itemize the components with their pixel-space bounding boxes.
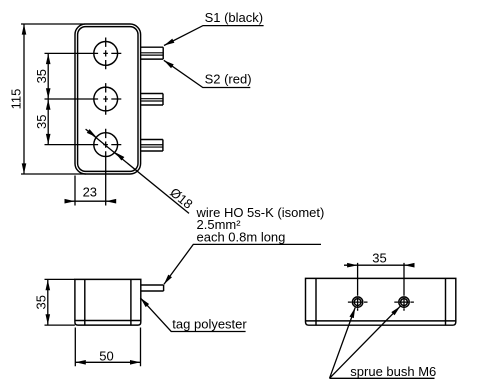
arrowhead dim 35b top xyxy=(46,99,51,110)
svg-text:sprue bush M6: sprue bush M6 xyxy=(350,364,436,379)
side view flange line left xyxy=(84,279,86,325)
arrowhead leader S1 xyxy=(164,39,174,46)
side view wire tab xyxy=(141,285,164,291)
side view flange line right xyxy=(130,279,132,325)
terminal tab T1 inner lines xyxy=(141,53,164,55)
svg-text:35: 35 xyxy=(33,295,48,309)
centerline hole H2 xyxy=(45,83,122,115)
arrowhead leader bush B2 xyxy=(391,306,400,315)
leader line tag polyester xyxy=(140,298,245,332)
arrowhead leader S2 xyxy=(164,60,174,68)
arrowhead dim 35a top xyxy=(46,54,51,65)
centerline hole H1 xyxy=(45,38,122,70)
arrowhead dim 35top right xyxy=(404,263,415,268)
hole H3 bottom xyxy=(94,133,118,157)
terminal tab T3 bottom xyxy=(141,140,163,152)
arrowhead dim 50 left xyxy=(75,360,86,365)
sprue bush B2 inner xyxy=(401,299,408,306)
svg-text:35: 35 xyxy=(372,251,386,266)
front view body outer outline xyxy=(75,24,141,174)
arrowhead dim 115 top xyxy=(22,24,27,34)
arrowhead dim 35side bottom xyxy=(46,314,51,325)
arrowhead dim 35top left xyxy=(347,263,358,268)
dimension 35 top view line xyxy=(344,264,414,266)
front view body inner outline xyxy=(78,27,138,172)
top view body outline xyxy=(306,278,456,325)
terminal tab T2 middle xyxy=(141,94,163,106)
top view end line right xyxy=(445,278,447,325)
dimension 35 line (front) xyxy=(47,53,49,144)
svg-text:50: 50 xyxy=(99,348,113,363)
top view bottom inner line xyxy=(306,320,456,322)
dimension 50 extensions and line xyxy=(75,328,140,367)
terminal tab T3 inner lines xyxy=(141,145,163,147)
arrowhead dim 115 bottom xyxy=(22,163,27,174)
centerline hole H3 and extension for dim 23 xyxy=(45,129,122,206)
svg-text:tag polyester: tag polyester xyxy=(172,316,247,331)
centerline bush B1 xyxy=(348,263,368,311)
arrowhead leader dia18 lower xyxy=(115,152,125,160)
svg-text:23: 23 xyxy=(83,185,97,200)
side view body outline xyxy=(75,279,141,325)
dimension 35 side line and extensions xyxy=(45,279,75,325)
hole H1 top xyxy=(94,42,118,66)
terminal tab T1 top xyxy=(141,47,164,59)
arrowhead dim 50 right xyxy=(130,360,141,365)
svg-text:35: 35 xyxy=(34,115,49,129)
leader line wire note xyxy=(164,244,321,284)
leader line dia 18 xyxy=(86,129,189,213)
arrowhead leader tag xyxy=(140,298,149,307)
dimension 115 line and extensions xyxy=(21,24,86,174)
dimension 23 extension and line xyxy=(66,176,116,206)
arrowhead leader wire note xyxy=(164,275,172,285)
svg-text:115: 115 xyxy=(9,89,24,110)
sprue bush B1 outer xyxy=(352,297,362,307)
svg-text:S2 (red): S2 (red) xyxy=(205,72,252,87)
arrowhead leader bush B1 xyxy=(349,308,355,319)
arrowhead dim 23 left xyxy=(65,199,76,204)
svg-text:S1 (black): S1 (black) xyxy=(205,10,264,25)
svg-text:each 0.8m long: each 0.8m long xyxy=(197,229,286,244)
side view bottom inner line xyxy=(75,320,141,322)
leader line S1 xyxy=(164,26,264,46)
terminal tab T2 inner lines xyxy=(141,99,163,101)
hole H2 middle xyxy=(94,87,118,111)
leader lines sprue bush xyxy=(330,306,435,378)
arrowhead dim 23 right xyxy=(106,199,117,204)
arrowhead leader dia18 upper xyxy=(87,129,97,137)
leader line S2 xyxy=(164,60,251,87)
top view end line left xyxy=(315,278,317,325)
sprue bush B1 inner xyxy=(354,299,361,306)
arrowhead dim 35a bottom xyxy=(46,88,51,99)
sprue bush B2 outer xyxy=(399,297,409,307)
centerline bush B2 xyxy=(394,263,414,311)
arrowhead dim 35side top xyxy=(46,280,51,291)
arrowhead dim 35b bottom xyxy=(46,134,51,145)
svg-text:35: 35 xyxy=(34,69,49,83)
